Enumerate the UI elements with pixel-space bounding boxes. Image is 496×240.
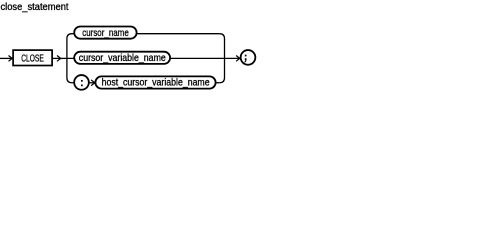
svg-text:cursor_name: cursor_name (82, 28, 129, 39)
svg-text:close_statement: close_statement (1, 2, 69, 13)
svg-text:cursor_variable_name: cursor_variable_name (79, 53, 166, 64)
svg-text:CLOSE: CLOSE (21, 53, 44, 65)
svg-text:host_cursor_variable_name: host_cursor_variable_name (102, 78, 210, 89)
